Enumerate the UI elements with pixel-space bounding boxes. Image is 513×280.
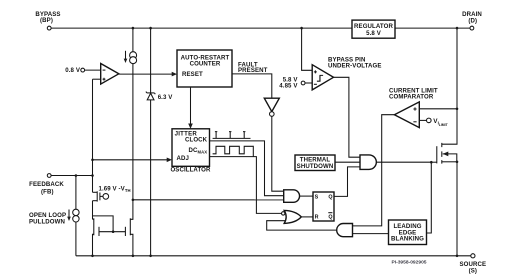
terminal SOURCE (S) (459, 254, 486, 275)
wire mosfet source to bottom rail (456, 162, 458, 256)
wire feedback to rail (51, 174, 94, 177)
wire DCmax output to OR gate bubble input (210, 157, 282, 214)
svg-text:FEEDBACK: FEEDBACK (29, 181, 64, 188)
auto-restart counter box (177, 50, 232, 87)
svg-text:4.85 V: 4.85 V (279, 83, 298, 90)
svg-text:OSCILLATOR: OSCILLATOR (170, 167, 211, 174)
transistor Q4 power mosfet (430, 143, 458, 164)
svg-text:0.8 V: 0.8 V (65, 67, 81, 74)
transistor Q3 mirror right (125, 200, 132, 256)
svg-text:REGULATOR: REGULATOR (354, 23, 393, 30)
regulator box 5.8V (352, 20, 395, 38)
svg-text:Q: Q (328, 195, 332, 201)
wire AND output to mosfet gate (376, 161, 431, 163)
node top rail / current source (132, 27, 135, 30)
wire drain line (442, 28, 457, 144)
wire under-voltage output to AND gate (334, 77, 361, 157)
node top rail / drain line (456, 27, 459, 30)
wire S-AND output to latch S (300, 195, 313, 197)
wire comparator output to auto-restart RESET (119, 72, 177, 77)
svg-text:(D): (D) (468, 18, 477, 25)
comparator U2 bypass pin under-voltage (312, 65, 333, 90)
svg-text:ADJ: ADJ (177, 155, 190, 162)
svg-text:CLOCK: CLOCK (185, 137, 208, 144)
svg-text:5.8 V: 5.8 V (366, 30, 382, 37)
svg-text:PRESENT: PRESENT (238, 67, 268, 74)
wire enable line to S-AND input 3 (132, 199, 284, 202)
wire comparator + input to drain line (419, 108, 458, 111)
svg-text:(S): (S) (469, 268, 477, 275)
and gate U3 driver (360, 155, 376, 170)
svg-text:VILIMIT: VILIMIT (433, 118, 448, 127)
wire top rail BP to regulator (51, 27, 352, 29)
wire feedback rail riser (92, 79, 94, 192)
transistor Q2 mirror left (93, 218, 100, 256)
label BYPASS PIN UNDER-VOLTAGE (328, 57, 382, 70)
label FAULT PRESENT (238, 61, 268, 74)
terminal 5.8V / 4.85V (279, 77, 312, 90)
svg-text:PI-3958-092905: PI-3958-092905 (391, 259, 426, 265)
wire LEB sense riser (427, 162, 432, 233)
wire auto-restart to oscillator (arrow down) (188, 87, 193, 129)
waveform DCmax square wave (213, 146, 254, 156)
svg-text:(FB): (FB) (41, 188, 54, 195)
terminal 0.8V reference (65, 67, 84, 74)
thermal shutdown box (295, 155, 335, 171)
terminal VILIMIT (419, 118, 448, 127)
current source open loop pulldown (67, 176, 79, 256)
svg-text:RESET: RESET (182, 71, 203, 78)
wire current-limit AND to OR input (267, 221, 337, 230)
wire top rail regulator to drain (395, 27, 470, 29)
svg-text:COUNTER: COUNTER (190, 60, 221, 67)
svg-text:6.3 V: 6.3 V (158, 94, 174, 101)
or gate U5 reset (282, 210, 302, 223)
oscillator box (170, 129, 211, 174)
node top rail / under-voltage tap (300, 27, 303, 30)
svg-text:BLANKING: BLANKING (391, 235, 424, 242)
svg-text:PULLDOWN: PULLDOWN (29, 218, 65, 225)
wire LEB output to U6 input (353, 233, 389, 235)
wire bottom rail (76, 255, 471, 258)
wire OR output to latch R (301, 216, 313, 218)
svg-text:SHUTDOWN: SHUTDOWN (297, 163, 334, 170)
label OPEN LOOP PULLDOWN (29, 212, 66, 226)
svg-text:Q: Q (328, 214, 332, 220)
svg-text:UNDER-VOLTAGE: UNDER-VOLTAGE (328, 62, 382, 69)
zener diode 6.3V (146, 28, 173, 256)
wire under-voltage tap (302, 28, 313, 70)
terminal DRAIN (D) (462, 11, 482, 30)
terminal FEEDBACK (FB) (29, 174, 64, 196)
svg-text:COMPARATOR: COMPARATOR (389, 93, 434, 100)
svg-text:R: R (315, 214, 319, 220)
and gate U4 set (284, 190, 300, 203)
comparator U1 feedback 0.8V (85, 64, 119, 85)
wire fault present to inverter (232, 74, 272, 98)
svg-text:1.69 V -VTH: 1.69 V -VTH (99, 186, 131, 194)
inverter (fault) (264, 98, 279, 116)
svg-text:(BP): (BP) (40, 17, 53, 24)
node top rail / zener (149, 27, 152, 30)
leading edge blanking box (389, 220, 427, 245)
transistor Q1 feedback p-mosfet (93, 191, 109, 219)
wire diode connection (93, 216, 126, 233)
wire ADJ input from feedback rail (arrow right) (91, 158, 172, 163)
terminal BYPASS (BP) (35, 11, 60, 30)
wire clock output to S-AND input 2 (210, 141, 284, 196)
comparator U7 current limit (394, 102, 419, 128)
wire latch Q to AND gate (334, 167, 360, 197)
wire inverter output to S-AND input 1 (272, 116, 284, 191)
latch SR (313, 192, 334, 221)
svg-text:S: S (315, 195, 319, 201)
wire comparator output to U6 input (353, 115, 395, 226)
wire thermal shutdown to AND gate (335, 161, 360, 163)
label CURRENT LIMIT COMPARATOR (389, 88, 438, 101)
waveform clock ticks (213, 132, 251, 139)
and gate U6 current limit (points left) (337, 224, 353, 237)
current source IFB (wire from top rail) (124, 28, 137, 200)
